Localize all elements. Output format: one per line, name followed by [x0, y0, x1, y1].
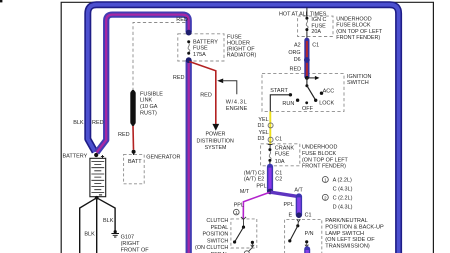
ignition switch dashed box [262, 74, 344, 112]
ignition switch feed dot [305, 76, 309, 80]
svg-text:PEDAL: PEDAL [211, 225, 229, 231]
label IGN C fuse [311, 17, 326, 35]
svg-text:M/T: M/T [240, 189, 250, 195]
label park/neutral switch [325, 218, 384, 249]
svg-text:ENGINE: ENGINE [226, 106, 248, 112]
wire RED to power distribution [189, 62, 216, 125]
svg-text:PPL: PPL [234, 203, 244, 209]
clutch switch entry arrow [241, 217, 246, 219]
dashed engine compartment boundary [133, 23, 186, 92]
svg-text:C2: C2 [275, 177, 282, 183]
park/neutral switch contacts [288, 222, 308, 247]
svg-text:(ON TOP OF LEFT: (ON TOP OF LEFT [302, 157, 349, 163]
labels M/T A/T connector pins [244, 171, 282, 183]
corner registration mark [0, 0, 2, 2]
connector D1 grommet [268, 123, 273, 128]
svg-text:FUSE BLOCK: FUSE BLOCK [302, 151, 337, 157]
svg-text:RED: RED [176, 17, 188, 23]
svg-text:PPL: PPL [284, 202, 294, 208]
label A2 C1 ORG D6 RED [288, 43, 319, 73]
IGN C fuse lead from bus [306, 8, 308, 18]
svg-text:RUST): RUST) [140, 111, 157, 117]
battery fuse 175A symbol [187, 40, 190, 55]
legend connector pin notes [322, 177, 352, 211]
ground G107 [111, 230, 119, 237]
labels ignition positions [270, 88, 334, 112]
svg-text:BLK: BLK [103, 218, 114, 224]
svg-text:FUSE: FUSE [193, 46, 208, 52]
svg-text:FUSE BLOCK: FUSE BLOCK [336, 23, 371, 29]
svg-text:RED: RED [118, 132, 130, 138]
wire RED battery feed trunk (purple band to battery fuse) [97, 15, 189, 153]
svg-text:C1: C1 [305, 213, 312, 219]
svg-text:LOCK: LOCK [319, 101, 334, 107]
park/neutral switch entry arrow [297, 219, 301, 222]
junction dot PPL split [267, 189, 273, 195]
wire YEL start circuit [269, 111, 271, 144]
fusible link element [132, 90, 135, 126]
wire PPL crank fuse output capsule [267, 167, 273, 191]
svg-text:RED: RED [200, 92, 212, 98]
svg-text:FRONT FENDER): FRONT FENDER) [336, 35, 380, 41]
label generator [146, 155, 180, 161]
svg-text:BLK: BLK [73, 120, 84, 126]
svg-text:10A: 10A [275, 159, 285, 165]
ignition contact LOCK [314, 99, 317, 102]
svg-text:20A: 20A [311, 29, 321, 35]
svg-text:BATT: BATT [128, 159, 142, 165]
svg-text:RADIATOR): RADIATOR) [227, 53, 257, 59]
clutch pedal position switch dashed box [231, 219, 257, 248]
svg-text:(ON CLUTCH: (ON CLUTCH [195, 245, 228, 251]
label power distribution system [197, 132, 235, 151]
svg-text:FUSIBLE: FUSIBLE [140, 91, 163, 97]
arrow to power distribution system [212, 124, 219, 131]
ignition contact START [289, 93, 292, 96]
label fusible link [140, 91, 163, 116]
label fuse holder [227, 35, 257, 59]
svg-text:W/4.3L: W/4.3L [226, 99, 248, 105]
label ignition switch [347, 74, 371, 86]
label underhood fuse block lower [302, 145, 349, 170]
label A/T [294, 188, 303, 194]
svg-text:(RIGHT: (RIGHT [121, 241, 141, 247]
svg-text:(A/T): (A/T) [244, 177, 256, 183]
underhood fuse block dashed box (IGN C fuse) [298, 16, 333, 36]
svg-text:BLK: BLK [84, 231, 95, 237]
label BLK ground leads [84, 218, 113, 238]
connector D3 C1 grommet [268, 137, 273, 142]
label generator batt [128, 159, 142, 165]
svg-text:BATTERY: BATTERY [193, 39, 218, 45]
svg-text:A/T: A/T [294, 188, 303, 194]
junction dot battery fuse bottom [186, 57, 192, 63]
connector grommet 1 (clutch feed) [234, 209, 240, 215]
svg-text:LAMP SWITCH: LAMP SWITCH [325, 231, 364, 237]
battery symbol [90, 158, 106, 196]
IGN C fuse 20A symbol [305, 17, 308, 39]
svg-text:RED: RED [289, 67, 301, 73]
ignition switch accessory feed arrow [307, 76, 320, 80]
svg-text:(RIGHT OF: (RIGHT OF [227, 46, 256, 52]
svg-text:E2: E2 [258, 177, 265, 183]
battery positive mark [101, 155, 104, 158]
label hot at all times [279, 11, 327, 17]
svg-text:LINK: LINK [140, 98, 153, 104]
svg-text:(ON LEFT SIDE OF: (ON LEFT SIDE OF [325, 237, 375, 243]
svg-text:PARK/NEUTRAL: PARK/NEUTRAL [325, 218, 367, 224]
ignition contact OFF [305, 101, 308, 104]
wire BLK battery cable (blue band) [88, 5, 399, 253]
generator dashed box [124, 154, 145, 183]
svg-text:D (4.3L): D (4.3L) [333, 204, 353, 210]
svg-text:(ON TOP OF LEFT: (ON TOP OF LEFT [336, 29, 383, 35]
fuse holder dashed box [178, 34, 224, 61]
svg-text:PPL: PPL [256, 184, 266, 190]
label G107 [121, 234, 150, 253]
svg-text:POSITION: POSITION [203, 232, 229, 238]
junction dot generator BATT terminal [132, 150, 136, 155]
label P/N [305, 231, 314, 237]
wire BLK battery negative left [80, 198, 97, 253]
label battery [62, 154, 87, 160]
label M/T [240, 189, 250, 195]
wire battery negative center [96, 198, 98, 253]
svg-text:P/N: P/N [305, 231, 314, 237]
svg-text:OFF: OFF [302, 106, 314, 112]
label BLK RED battery cables [73, 120, 103, 126]
svg-text:RED: RED [92, 120, 104, 126]
svg-text:E: E [289, 213, 293, 219]
wire PPL M/T branch [243, 192, 269, 219]
battery negative junction dot [95, 196, 99, 200]
svg-text:C1: C1 [312, 43, 319, 49]
connector dot E C1 [296, 212, 302, 218]
wire PPL A/T branch [271, 192, 299, 196]
labels E C1 [289, 213, 312, 219]
svg-text:FRONT OF: FRONT OF [121, 247, 150, 253]
wire RED fusible link to generator [132, 126, 135, 150]
label PPL M/T branch [234, 203, 244, 209]
label PPL A/T branch [284, 202, 294, 208]
svg-text:DISTRIBUTION: DISTRIBUTION [197, 139, 235, 145]
svg-text:175A: 175A [193, 52, 206, 58]
clutch switch contacts [233, 219, 254, 251]
svg-text:D6: D6 [294, 57, 301, 63]
svg-text:D1: D1 [257, 123, 264, 129]
svg-text:TRANSMISSION): TRANSMISSION) [325, 243, 370, 249]
svg-text:START: START [270, 88, 288, 94]
svg-text:SYSTEM: SYSTEM [205, 145, 227, 151]
label battery fuse [193, 39, 218, 57]
svg-text:IGN C: IGN C [311, 17, 326, 23]
svg-text:POSITION & BACK-UP: POSITION & BACK-UP [325, 225, 384, 231]
svg-text:CLUTCH: CLUTCH [206, 218, 228, 224]
svg-text:GENERATOR: GENERATOR [146, 155, 180, 161]
labels YEL D1 D3 C1 [257, 117, 282, 143]
svg-text:CRANK: CRANK [275, 145, 295, 151]
svg-text:(10 GA: (10 GA [140, 104, 158, 110]
svg-text:FUSE: FUSE [275, 152, 290, 158]
battery negative mark [99, 194, 102, 196]
connector D6 blob [304, 57, 310, 63]
connector grommet 2 (clutch output) [244, 251, 249, 253]
svg-text:RUN: RUN [282, 101, 294, 107]
park/neutral position switch dashed box [285, 219, 322, 253]
svg-text:C (2.2L): C (2.2L) [333, 196, 353, 202]
ignition switch rotor [305, 78, 315, 100]
label RED fusible [118, 132, 130, 138]
wire PPL A/T capsule [296, 197, 302, 215]
label RED power feed [200, 92, 212, 98]
svg-text:ORG: ORG [288, 50, 300, 56]
svg-text:FRONT FENDER): FRONT FENDER) [302, 164, 346, 170]
ignition contact ACC [320, 92, 323, 95]
svg-text:UNDERHOOD: UNDERHOOD [302, 145, 337, 151]
svg-text:A (2.2L): A (2.2L) [333, 178, 352, 184]
wire BLK battery negative to ground [97, 198, 115, 231]
wire START output [270, 95, 290, 112]
svg-text:A2: A2 [294, 43, 301, 49]
battery junction dot positive [94, 153, 98, 157]
svg-text:SWITCH: SWITCH [347, 80, 369, 86]
wire PPL park/neutral output stub [304, 249, 310, 253]
label crank fuse [275, 145, 295, 165]
svg-text:SWITCH: SWITCH [207, 238, 228, 244]
label RED top [176, 17, 188, 23]
label clutch pedal position switch [195, 218, 228, 253]
svg-text:ACC: ACC [323, 88, 335, 94]
junction dot battery fuse top [186, 30, 192, 36]
CRANK fuse 10A symbol [268, 144, 273, 165]
underhood fuse block dashed box (CRANK fuse) [261, 144, 300, 166]
svg-text:C1: C1 [275, 137, 282, 143]
svg-text:BATTERY: BATTERY [62, 154, 87, 160]
wire RED trunk below battery fuse [186, 60, 192, 253]
leader arrow W/A engine [217, 79, 237, 95]
svg-text:RED: RED [173, 75, 185, 81]
svg-text:G107: G107 [121, 234, 134, 240]
svg-text:POWER: POWER [205, 132, 225, 138]
svg-text:YEL: YEL [258, 117, 268, 123]
label PPL center [256, 184, 266, 190]
label W/A engine [226, 99, 248, 112]
svg-text:C (4.3L): C (4.3L) [333, 187, 353, 193]
label underhood fuse block top [336, 17, 383, 41]
label RED trunk upper [173, 75, 185, 81]
ignition contact RUN [296, 99, 299, 102]
svg-text:D3: D3 [257, 136, 264, 142]
wire ORG fuse to ignition switch [304, 40, 309, 76]
